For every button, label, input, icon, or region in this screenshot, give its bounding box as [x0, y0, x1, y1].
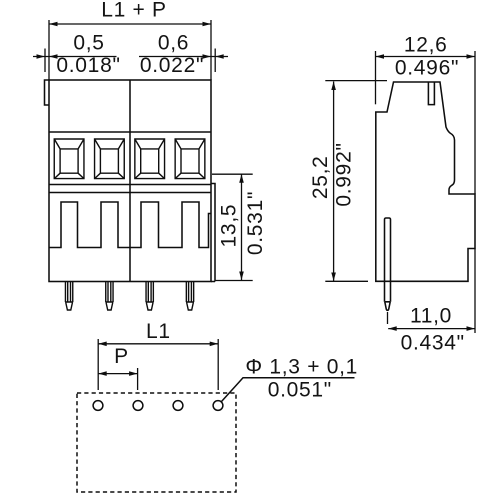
svg-text:L1 + P: L1 + P — [101, 0, 167, 22]
svg-text:25,2: 25,2 — [309, 155, 332, 199]
svg-text:0.434": 0.434" — [401, 331, 465, 354]
svg-text:0.022": 0.022" — [140, 54, 204, 77]
svg-text:0.018": 0.018" — [56, 54, 120, 77]
svg-text:Φ 1,3 + 0,1: Φ 1,3 + 0,1 — [245, 355, 358, 378]
svg-text:P: P — [114, 345, 129, 368]
svg-text:0.992": 0.992" — [333, 142, 356, 206]
svg-text:0.531": 0.531" — [244, 191, 267, 255]
svg-text:0,5: 0,5 — [73, 32, 104, 55]
svg-text:L1: L1 — [146, 320, 171, 343]
svg-text:13,5: 13,5 — [218, 204, 241, 248]
svg-text:11,0: 11,0 — [410, 304, 452, 327]
svg-text:0.051": 0.051" — [268, 379, 332, 402]
svg-text:0,6: 0,6 — [158, 32, 189, 55]
svg-text:0.496": 0.496" — [395, 57, 459, 80]
svg-text:12,6: 12,6 — [404, 34, 448, 57]
